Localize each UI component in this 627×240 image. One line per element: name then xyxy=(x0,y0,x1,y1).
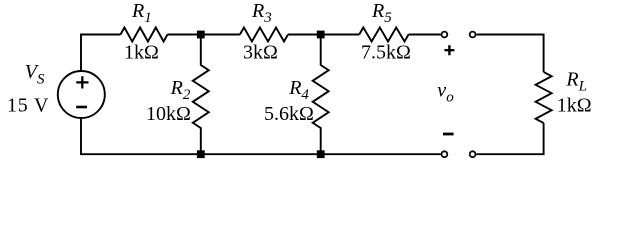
svg-text:10kΩ: 10kΩ xyxy=(146,103,191,125)
svg-text:15 V: 15 V xyxy=(7,95,49,117)
wire top-left segment from source to R1 xyxy=(81,35,121,72)
resistor RL xyxy=(536,72,552,123)
wire R5 to output terminal xyxy=(409,34,441,36)
svg-text:R4: R4 xyxy=(288,77,309,103)
svg-text:1kΩ: 1kΩ xyxy=(124,42,159,64)
resistor R5 xyxy=(359,28,408,42)
output terminal top-right (open circle) xyxy=(470,32,476,38)
svg-text:R5: R5 xyxy=(371,0,392,26)
wire right-top terminal to RL xyxy=(476,35,543,73)
resistor R4 with connecting wires xyxy=(313,35,329,155)
resistor R3 xyxy=(240,28,288,42)
svg-text:7.5kΩ: 7.5kΩ xyxy=(361,42,411,64)
wire source bottom to bottom rail xyxy=(81,118,441,154)
output minus sign xyxy=(443,133,454,136)
node B junction dot xyxy=(317,31,325,39)
svg-text:RL: RL xyxy=(565,69,587,95)
voltage source V_S circle xyxy=(58,71,105,118)
svg-text:R3: R3 xyxy=(251,0,272,26)
svg-text:1kΩ: 1kΩ xyxy=(557,94,592,116)
svg-text:R2: R2 xyxy=(170,77,191,103)
wire R3 to node B xyxy=(288,34,359,36)
plus sign inside source xyxy=(76,76,88,88)
bottom node under R2 xyxy=(197,150,205,158)
svg-text:3kΩ: 3kΩ xyxy=(243,42,278,64)
bottom node under R4 xyxy=(317,150,325,158)
resistor R2 with connecting wires xyxy=(193,35,209,155)
wire R1 to node A xyxy=(168,34,240,36)
svg-text:vo: vo xyxy=(437,80,454,106)
minus sign inside source xyxy=(76,106,87,109)
output plus sign xyxy=(444,45,454,55)
output terminal bottom-left (open circle) xyxy=(442,151,448,157)
output terminal bottom-right (open circle) xyxy=(470,151,476,157)
output terminal top-left (open circle) xyxy=(442,32,448,38)
svg-text:VS: VS xyxy=(25,61,45,88)
resistor R1 xyxy=(121,28,168,42)
wire RL to bottom-right terminal xyxy=(476,123,543,154)
svg-text:5.6kΩ: 5.6kΩ xyxy=(264,103,314,125)
svg-text:R1: R1 xyxy=(131,0,152,26)
node A junction dot xyxy=(197,31,205,39)
